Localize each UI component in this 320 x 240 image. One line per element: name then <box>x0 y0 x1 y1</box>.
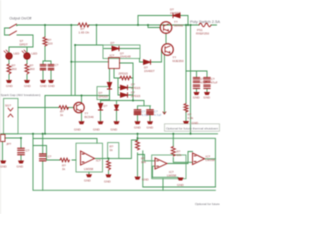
svg-text:GND: GND <box>104 179 112 183</box>
svg-text:LED: LED <box>32 52 39 56</box>
svg-text:GND: GND <box>134 126 142 130</box>
svg-text:ZPD15: ZPD15 <box>119 72 129 76</box>
svg-text:4.7uF: 4.7uF <box>142 113 150 117</box>
svg-text:GND: GND <box>0 165 8 169</box>
svg-text:ZPD15: ZPD15 <box>131 86 141 90</box>
svg-text:LM358: LM358 <box>167 173 177 177</box>
svg-text:LM358: LM358 <box>84 167 94 171</box>
svg-text:JP?: JP? <box>6 142 12 146</box>
svg-text:GND: GND <box>177 183 185 187</box>
svg-text:GND: GND <box>93 128 101 132</box>
svg-text:DPDT: DPDT <box>20 43 28 47</box>
svg-text:C?: C? <box>55 63 59 67</box>
svg-text:MJE350: MJE350 <box>173 59 184 63</box>
svg-text:GND: GND <box>193 96 201 100</box>
svg-text:GND: GND <box>142 177 150 181</box>
svg-text:LED: LED <box>14 52 21 56</box>
svg-text:D?: D? <box>111 41 115 45</box>
svg-text:360: 360 <box>30 67 35 71</box>
svg-text:IC?: IC? <box>96 159 101 163</box>
svg-text:Optional for future thermal sh: Optional for future thermal shutdown <box>166 126 218 130</box>
svg-text:GND: GND <box>48 84 56 88</box>
svg-text:RXEF250: RXEF250 <box>196 32 209 36</box>
svg-text:GND: GND <box>17 165 25 169</box>
svg-text:10k: 10k <box>177 153 182 157</box>
svg-text:10k: 10k <box>141 160 146 164</box>
svg-text:GND: GND <box>84 179 92 183</box>
svg-text:SG?: SG? <box>5 104 11 108</box>
svg-text:GND: GND <box>74 128 82 132</box>
svg-text:C?: C? <box>47 63 51 67</box>
svg-text:ZPD15: ZPD15 <box>131 94 141 98</box>
svg-text:C?: C? <box>26 149 30 153</box>
svg-text:BD682: BD682 <box>174 24 184 28</box>
svg-text:1N4007: 1N4007 <box>144 69 155 73</box>
svg-text:Output On/Off: Output On/Off <box>9 16 32 21</box>
svg-text:47uF: 47uF <box>200 81 207 85</box>
svg-text:GND: GND <box>40 84 48 88</box>
svg-text:GND: GND <box>24 84 32 88</box>
svg-text:Poly Switch 2.5A: Poly Switch 2.5A <box>190 20 221 24</box>
svg-text:0.5k: 0.5k <box>188 116 194 120</box>
svg-text:ZPD15: ZPD15 <box>99 95 109 99</box>
svg-text:220: 220 <box>48 42 53 46</box>
svg-text:1N4007: 1N4007 <box>170 11 181 15</box>
svg-text:Optional for future: Optional for future <box>195 202 220 206</box>
svg-text:GND: GND <box>203 96 211 100</box>
svg-text:1k: 1k <box>110 148 114 152</box>
svg-text:IC?: IC? <box>110 54 115 58</box>
svg-text:BC546: BC546 <box>85 115 95 119</box>
svg-text:Spark Gap (4kV breakdown): Spark Gap (4kV breakdown) <box>1 93 41 97</box>
svg-text:1.65 Oh: 1.65 Oh <box>79 31 90 35</box>
svg-text:1N4148: 1N4148 <box>120 55 131 59</box>
svg-text:GND: GND <box>147 126 155 130</box>
svg-text:LM358: LM358 <box>206 158 216 162</box>
svg-text:1k: 1k <box>60 113 64 117</box>
svg-text:C?: C? <box>48 155 52 159</box>
svg-text:GND: GND <box>111 128 119 132</box>
svg-text:1k: 1k <box>62 167 66 171</box>
svg-text:47uF: 47uF <box>211 81 218 85</box>
svg-text:360: 360 <box>12 67 17 71</box>
svg-text:GND: GND <box>6 84 14 88</box>
svg-text:4.7uF: 4.7uF <box>154 113 162 117</box>
svg-text:GND: GND <box>192 121 200 125</box>
svg-text:D?: D? <box>104 104 108 108</box>
